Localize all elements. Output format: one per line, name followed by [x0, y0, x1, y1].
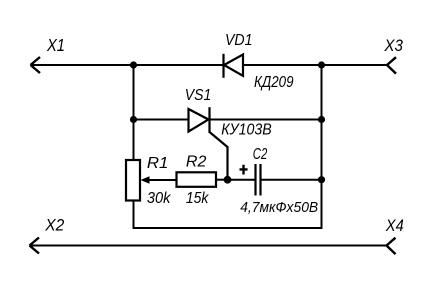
svg-text:4,7мкФх50В: 4,7мкФх50В	[240, 199, 318, 216]
thyristor VS1	[189, 107, 210, 133]
wire top bus left segment	[32, 64, 224, 66]
terminal arrow X1	[31, 57, 41, 73]
svg-text:КУ103В: КУ103В	[221, 122, 272, 139]
svg-text:VS1: VS1	[185, 87, 212, 104]
wire VS1 row right	[210, 119, 322, 121]
svg-text:VD1: VD1	[225, 32, 253, 49]
svg-text:КД209: КД209	[254, 74, 294, 91]
svg-text:X2: X2	[44, 215, 64, 234]
terminal fork X3	[387, 57, 396, 73]
diode VD1	[224, 54, 244, 78]
junction node gate/R2/C2	[224, 176, 232, 184]
svg-text:X1: X1	[46, 35, 65, 55]
wire right vertical	[321, 65, 323, 229]
svg-text:R2: R2	[186, 154, 207, 171]
wire R1 bottom	[133, 201, 135, 230]
label + polarity of C2	[240, 165, 248, 175]
svg-text:R1: R1	[147, 155, 169, 172]
svg-text:X3: X3	[384, 36, 404, 55]
wire VS1 gate	[210, 132, 228, 180]
wire top bus right segment	[243, 64, 387, 66]
wire node to C2 left plate	[228, 179, 255, 181]
wire R2 to gate node	[216, 179, 228, 181]
terminal arrow X2	[30, 238, 40, 254]
resistor R1 (potentiometer)	[126, 160, 140, 201]
capacitor C2	[256, 164, 261, 196]
terminal fork X4	[387, 238, 396, 254]
wire VS1 row left	[134, 119, 189, 121]
wire inner bottom	[133, 227, 323, 229]
wire C2 right plate to right vertical	[262, 179, 322, 181]
junction dot VS1 right	[318, 116, 325, 123]
R1 wiper arrow	[141, 176, 177, 184]
junction dot top-right	[318, 61, 325, 68]
svg-text:X4: X4	[385, 216, 404, 235]
wire bottom bus X2-X4	[31, 245, 387, 247]
junction dot VS1 left	[130, 116, 137, 123]
junction dot top-left	[130, 61, 137, 68]
svg-text:15k: 15k	[186, 190, 209, 207]
resistor R2	[177, 172, 217, 187]
wire left vertical	[133, 65, 135, 161]
svg-text:30k: 30k	[147, 190, 171, 207]
svg-text:C2: C2	[253, 146, 268, 163]
junction dot C2 right	[318, 176, 325, 183]
